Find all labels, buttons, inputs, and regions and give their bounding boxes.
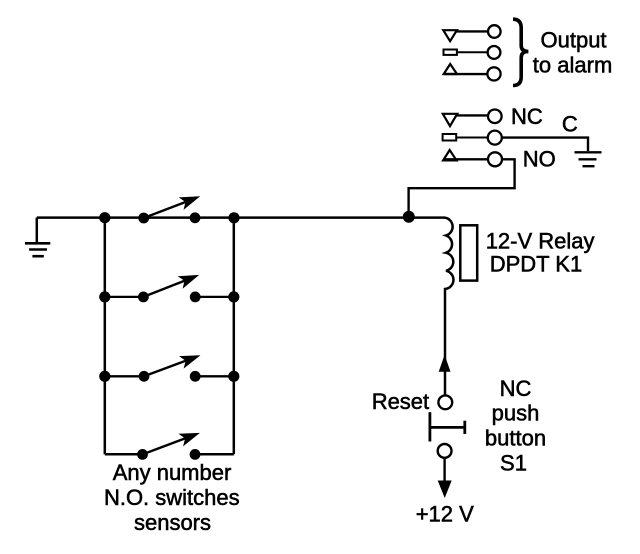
wire: set B NO pin to terminal xyxy=(443,158,487,160)
relay K1 coil xyxy=(445,218,453,395)
svg-text:Any number: Any number xyxy=(113,460,232,485)
wire: row2 left segment xyxy=(105,296,144,298)
wire: set A NO pin to terminal xyxy=(444,73,487,75)
wire: set A NC pin to terminal xyxy=(455,30,488,32)
terminal circle: set B NC xyxy=(488,110,502,124)
relay K1 contact set A: NC pin triangle xyxy=(443,30,457,41)
junction: switch 1 pivot xyxy=(138,213,149,224)
svg-text:C: C xyxy=(562,111,578,136)
terminal circle: set A NO xyxy=(487,67,500,80)
label: Any number N.O. switches sensors xyxy=(104,460,240,535)
junction: switch 4 throw xyxy=(190,449,201,460)
label C xyxy=(562,111,578,136)
brace grouping output terminals xyxy=(513,19,528,85)
wire: row3 left segment xyxy=(105,375,144,377)
switch S-row1 arm xyxy=(144,196,201,218)
svg-text:+12 V: +12 V xyxy=(416,501,474,526)
junction: switch 1 throw xyxy=(190,212,201,223)
terminal circle: set B common xyxy=(488,131,502,145)
svg-text:to alarm: to alarm xyxy=(533,53,612,78)
wire: set B common pin to terminal xyxy=(456,137,488,139)
svg-text:NO: NO xyxy=(523,146,556,171)
svg-text:12-V Relay: 12-V Relay xyxy=(486,229,595,254)
terminal circle: set A common xyxy=(488,46,501,59)
relay K1 contact set B: NC pin triangle xyxy=(443,114,457,126)
svg-text:NC: NC xyxy=(500,376,532,401)
wire: row2 right segment xyxy=(195,296,234,298)
wire: set A common pin to terminal xyxy=(457,51,488,53)
svg-text:Reset: Reset xyxy=(372,389,429,414)
svg-text:button: button xyxy=(485,425,546,450)
relay K1 contact set A: NO pin triangle xyxy=(444,64,457,74)
ground symbol (right) xyxy=(575,152,602,166)
svg-text:DPDT K1: DPDT K1 xyxy=(490,252,583,277)
junction: row3 left bus xyxy=(99,371,110,382)
wire: row3 right segment xyxy=(195,375,234,377)
junction: row3 right bus xyxy=(228,371,239,382)
wire: row4 bottom right segment xyxy=(195,453,234,456)
label: Output to alarm xyxy=(533,28,612,78)
wire: NO terminal down to coil node xyxy=(409,159,515,216)
wire: right bus vertical xyxy=(233,218,236,455)
wire: row4 bottom left segment xyxy=(105,453,143,456)
svg-text:N.O. switches: N.O. switches xyxy=(104,485,240,510)
svg-text:push: push xyxy=(492,401,540,426)
junction: NO wire to main bus xyxy=(403,211,415,223)
label +12 V supply xyxy=(416,501,474,526)
arrow down to +12V xyxy=(438,481,452,499)
label NC xyxy=(511,104,543,129)
switch S-row3 arm xyxy=(144,355,201,376)
pushbutton S1 actuator xyxy=(430,412,466,441)
svg-text:S1: S1 xyxy=(500,450,527,475)
svg-text:Output: Output xyxy=(541,28,607,53)
switch S-row2 arm xyxy=(143,275,199,297)
wire: S1 to +12V supply xyxy=(443,458,445,482)
arrow up on reset wire xyxy=(439,355,451,372)
junction: switch 3 throw xyxy=(190,371,201,382)
svg-text:sensors: sensors xyxy=(134,510,211,535)
relay K1 contact set B: NO pin triangle xyxy=(443,150,456,160)
wire: set B NC pin to terminal xyxy=(455,114,488,116)
junction: switch 4 pivot xyxy=(137,449,148,460)
junction: switch 2 throw xyxy=(190,292,201,303)
svg-text:NC: NC xyxy=(511,104,543,129)
label Reset xyxy=(372,389,429,414)
junction: switch 3 pivot xyxy=(139,371,150,382)
junction: switch 2 pivot xyxy=(138,292,149,303)
relay K1 contact set A: common pin bar xyxy=(444,50,457,55)
wire: drop to left ground xyxy=(36,218,39,243)
pushbutton S1 top terminal xyxy=(438,395,452,409)
relay K1 contact set B: common pin bar xyxy=(443,134,457,141)
pushbutton S1 bottom terminal xyxy=(438,444,452,458)
label: 12-V Relay DPDT K1 xyxy=(486,229,595,277)
junction: row2 right bus xyxy=(228,291,239,302)
label: NC push button S1 xyxy=(485,376,546,476)
wire: main bus from left ground to relay coil xyxy=(37,216,445,219)
switch S-row4 arm xyxy=(143,433,200,455)
terminal circle: set A NC xyxy=(488,25,501,38)
wire: common terminal to ground xyxy=(502,138,588,151)
ground symbol (left) xyxy=(25,243,50,256)
terminal circle: set B NO xyxy=(488,152,502,166)
wire: left bus vertical xyxy=(104,218,107,455)
junction: left bus top xyxy=(99,212,110,223)
relay K1 core bar xyxy=(460,225,477,280)
label NO xyxy=(523,146,556,171)
junction: row2 left bus xyxy=(99,291,110,302)
junction: right bus top xyxy=(228,212,239,223)
